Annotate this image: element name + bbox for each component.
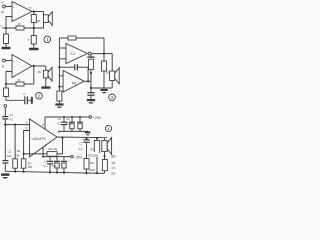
output bubble C1 xyxy=(88,52,91,55)
svg-text:+: + xyxy=(13,59,15,63)
input jack J1 xyxy=(3,5,6,8)
resistor R1 (to ground) xyxy=(5,28,7,34)
wire R3 up to output xyxy=(62,138,64,154)
resistor R2 (below node) xyxy=(5,84,7,88)
ground (speaker) xyxy=(41,86,50,88)
svg-text:0.1: 0.1 xyxy=(44,164,48,168)
svg-text:C6: C6 xyxy=(66,117,70,121)
pin 5 wire (V+) xyxy=(44,117,46,129)
circled number 2 xyxy=(36,93,43,100)
svg-text:50µ: 50µ xyxy=(66,122,71,126)
svg-text:R5: R5 xyxy=(90,161,94,165)
pin 3 wire (V-) xyxy=(42,147,44,156)
svg-text:C7: C7 xyxy=(79,142,83,146)
resistor R4 xyxy=(96,137,98,139)
svg-text:50µ: 50µ xyxy=(52,164,57,168)
speaker BL4 xyxy=(104,138,106,140)
svg-text:1/2W: 1/2W xyxy=(88,168,95,172)
resistor R6 xyxy=(102,160,107,171)
svg-text:C1: C1 xyxy=(70,51,76,56)
capacitor to ground (x=91) xyxy=(90,88,92,92)
node bottom of R xyxy=(33,27,35,29)
wire feedback cap line xyxy=(59,66,74,68)
wire bottom rail 3 xyxy=(91,87,112,89)
node output A2 xyxy=(33,65,35,67)
wire bottom ground rail xyxy=(5,171,104,173)
node left col (feedback cap) xyxy=(58,66,60,68)
resistor R (below output node) xyxy=(33,12,35,15)
node feedback 2 xyxy=(5,83,7,85)
node -25V line xyxy=(42,156,44,158)
resistor Rf (horizontal on rail) xyxy=(16,26,24,30)
wire inverting input to node xyxy=(6,17,12,29)
op-amp N1 xyxy=(63,71,84,93)
node rail xyxy=(90,87,92,89)
ground (+bank) xyxy=(85,131,90,133)
svg-text:LM1875: LM1875 xyxy=(32,136,46,141)
node pin2/R2/R3 xyxy=(23,153,25,155)
capacitor C xyxy=(24,96,25,104)
wire to speaker xyxy=(43,12,45,16)
capacitor C2 (left col) xyxy=(4,125,6,160)
op-amp A2 xyxy=(12,55,32,78)
op-amp C1 xyxy=(66,44,88,64)
speaker BL1 xyxy=(44,15,49,23)
resistor Rf2 xyxy=(16,82,24,86)
capacitor (third, electrolytic) xyxy=(63,157,65,161)
wire lower rail (+bank) xyxy=(58,130,88,132)
svg-text:R3 22k: R3 22k xyxy=(49,147,59,151)
wire output xyxy=(32,11,44,13)
resistor R1 xyxy=(14,125,16,159)
-25V line xyxy=(43,156,71,158)
svg-text:5W: 5W xyxy=(111,172,116,176)
wire input stubs N1 xyxy=(59,75,63,77)
wire top feedback rail xyxy=(59,37,104,39)
capacitor Cf plates xyxy=(74,64,75,70)
nodes on rail xyxy=(14,170,16,172)
node input xyxy=(4,124,6,126)
wire jack to op-amp xyxy=(5,60,12,62)
svg-text:1: 1 xyxy=(26,121,28,125)
svg-text:0.1: 0.1 xyxy=(79,147,83,151)
terminal -25V xyxy=(71,155,74,158)
svg-text:680: 680 xyxy=(28,165,33,169)
input jack J3 xyxy=(4,105,7,108)
svg-text:N1: N1 xyxy=(72,80,78,85)
svg-text:-: - xyxy=(13,70,14,74)
svg-text:C1: C1 xyxy=(9,113,13,117)
svg-text:R4: R4 xyxy=(90,148,94,152)
svg-text:2: 2 xyxy=(38,94,41,99)
circled number 1 xyxy=(44,36,51,43)
resistor R2 xyxy=(23,154,25,159)
speaker BL3 xyxy=(111,54,113,71)
ground xyxy=(2,47,11,49)
wire jack to op-amp xyxy=(5,6,12,8)
terminator bar xyxy=(31,97,33,104)
svg-text:-: - xyxy=(13,16,14,20)
wire to pin1 xyxy=(5,124,29,126)
input jack J2 xyxy=(3,59,6,62)
resistor R (x=104) xyxy=(103,54,105,61)
resistor R3 xyxy=(47,152,57,157)
wire to capacitor xyxy=(6,99,24,101)
svg-text:4.7: 4.7 xyxy=(9,117,13,121)
svg-text:3: 3 xyxy=(44,143,46,147)
node feedback xyxy=(5,27,7,29)
svg-text:22k: 22k xyxy=(15,153,20,157)
svg-text:C5: C5 xyxy=(44,159,48,163)
node R1 top xyxy=(14,124,16,126)
ground (main, bottom-left) xyxy=(1,173,9,176)
wire output C1 xyxy=(91,53,112,55)
wire output N1 xyxy=(84,80,91,82)
speaker BL2 xyxy=(45,66,47,70)
capacitor C6 (50u electrolytic) xyxy=(71,117,73,122)
svg-text:+25V: +25V xyxy=(93,116,102,120)
wire feedback rail 2 xyxy=(6,83,34,85)
svg-text:3: 3 xyxy=(111,95,114,100)
op-amp A1 xyxy=(12,2,32,22)
resistor Rb (middle, to ground) xyxy=(33,28,35,36)
wire output xyxy=(32,65,46,67)
node below cap xyxy=(90,72,92,74)
resistor R5 xyxy=(84,159,89,170)
wire jack down xyxy=(4,107,6,116)
ground xyxy=(55,103,63,105)
capacitor C6b (electrolytic) xyxy=(56,157,58,161)
node output A1 xyxy=(33,10,35,12)
svg-text:8Ω: 8Ω xyxy=(111,154,116,158)
capacitor C4 (0.1) xyxy=(63,117,65,122)
capacitor C1 xyxy=(2,116,8,117)
ground (under resistor col) xyxy=(100,89,107,91)
wire feedback rail xyxy=(2,27,43,29)
wire left column xyxy=(58,38,60,91)
svg-text:Ri: Ri xyxy=(1,11,4,15)
zobel C7 xyxy=(85,137,87,139)
svg-text:10µ: 10µ xyxy=(7,154,12,158)
feedback R3 line xyxy=(24,153,63,155)
wire rail down xyxy=(103,38,105,54)
pin 2 wire xyxy=(24,131,30,154)
circled number 3 xyxy=(109,94,116,101)
resistor Rf3 xyxy=(68,36,76,40)
capacitor C8 (electrolytic) xyxy=(79,117,81,122)
svg-text:33Ω/2W: 33Ω/2W xyxy=(87,153,98,157)
capacitor C (electrolytic, x=91) xyxy=(90,55,92,56)
svg-text:0.5: 0.5 xyxy=(112,166,116,170)
svg-text:5: 5 xyxy=(42,123,44,127)
node on output xyxy=(103,53,105,55)
svg-text:0.1: 0.1 xyxy=(58,122,62,126)
svg-text:R6: R6 xyxy=(112,161,116,165)
svg-text:4: 4 xyxy=(58,130,60,134)
svg-text:C2: C2 xyxy=(8,150,12,154)
svg-text:R1: R1 xyxy=(17,149,21,153)
wire output node down xyxy=(33,66,35,84)
svg-text:-25V: -25V xyxy=(75,155,83,159)
ground xyxy=(87,99,95,101)
wire inverting input xyxy=(6,72,12,85)
op-amp U1 LM1875 xyxy=(30,119,58,157)
svg-text:C4: C4 xyxy=(58,117,62,121)
capacitor C5 (0.1) xyxy=(49,157,51,161)
ground xyxy=(29,48,39,51)
pin 4 output wire xyxy=(57,136,107,139)
terminal +25V xyxy=(89,116,92,119)
svg-text:1: 1 xyxy=(46,37,49,42)
resistor (left col bottom) xyxy=(57,91,62,101)
svg-text:2: 2 xyxy=(25,127,27,131)
svg-text:C6: C6 xyxy=(52,159,56,163)
svg-text:+: + xyxy=(13,5,15,9)
+25V rail xyxy=(45,116,89,118)
wire input stubs C1 xyxy=(59,47,66,49)
label 33ohm/2W xyxy=(87,152,99,157)
circled number 4 xyxy=(105,125,111,131)
